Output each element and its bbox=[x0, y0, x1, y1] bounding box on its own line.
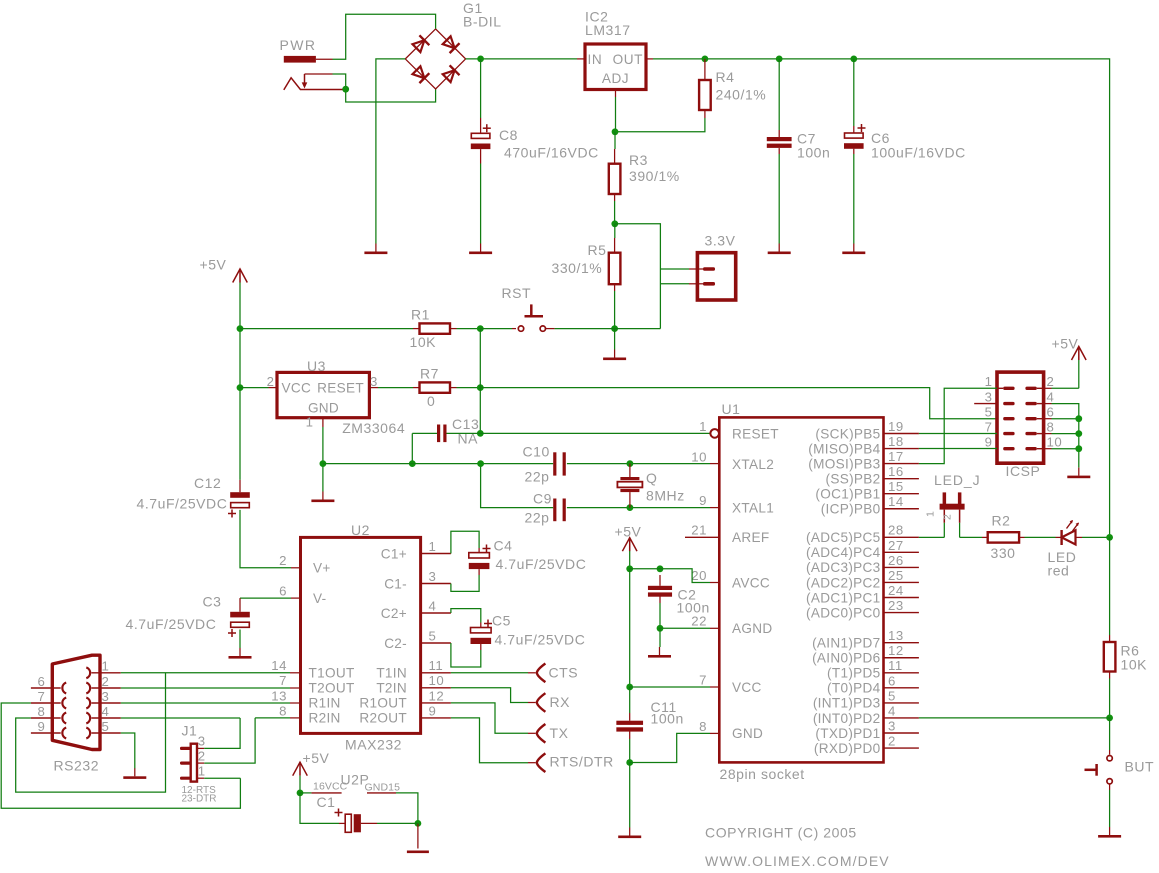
svg-text:(AIN0)PD6: (AIN0)PD6 bbox=[812, 651, 880, 666]
svg-text:23: 23 bbox=[888, 598, 904, 613]
svg-text:18: 18 bbox=[888, 434, 904, 449]
svg-text:23-DTR: 23-DTR bbox=[182, 794, 217, 805]
svg-text:6: 6 bbox=[38, 674, 46, 689]
svg-text:100n: 100n bbox=[797, 145, 830, 161]
svg-text:11: 11 bbox=[429, 658, 444, 673]
svg-text:AVCC: AVCC bbox=[732, 575, 770, 590]
svg-text:8: 8 bbox=[279, 703, 287, 718]
svg-text:NA: NA bbox=[458, 431, 479, 447]
svg-text:7: 7 bbox=[699, 672, 707, 687]
svg-text:(MOSI)PB3: (MOSI)PB3 bbox=[808, 456, 880, 471]
svg-text:240/1%: 240/1% bbox=[716, 87, 767, 103]
svg-text:RTS/DTR: RTS/DTR bbox=[550, 754, 614, 770]
svg-text:(ICP)PB0: (ICP)PB0 bbox=[821, 502, 881, 517]
svg-text:LED_J: LED_J bbox=[934, 472, 981, 488]
svg-text:C2-: C2- bbox=[384, 636, 407, 651]
svg-text:U1: U1 bbox=[722, 401, 741, 417]
svg-text:10: 10 bbox=[691, 449, 707, 464]
svg-text:4.7uF/25VDC: 4.7uF/25VDC bbox=[495, 632, 586, 648]
svg-text:8: 8 bbox=[38, 704, 46, 719]
svg-text:100n: 100n bbox=[677, 600, 710, 616]
svg-text:C5: C5 bbox=[492, 613, 511, 629]
svg-text:R1: R1 bbox=[411, 307, 430, 323]
svg-text:VCC: VCC bbox=[732, 680, 762, 695]
svg-text:C2+: C2+ bbox=[381, 606, 407, 621]
svg-text:WWW.OLIMEX.COM/DEV: WWW.OLIMEX.COM/DEV bbox=[705, 853, 890, 869]
svg-text:PWR: PWR bbox=[280, 37, 317, 53]
svg-text:100uF/16VDC: 100uF/16VDC bbox=[871, 145, 966, 161]
svg-text:8: 8 bbox=[699, 719, 707, 734]
svg-text:+5V: +5V bbox=[200, 257, 227, 273]
svg-text:RS232: RS232 bbox=[54, 758, 100, 774]
svg-text:R7: R7 bbox=[420, 366, 439, 382]
svg-text:XTAL2: XTAL2 bbox=[732, 457, 774, 472]
svg-text:15: 15 bbox=[888, 479, 904, 494]
svg-text:U3: U3 bbox=[307, 358, 326, 374]
svg-text:9: 9 bbox=[985, 435, 993, 450]
svg-text:XTAL1: XTAL1 bbox=[732, 500, 774, 515]
svg-text:10K: 10K bbox=[1121, 657, 1148, 673]
svg-text:10K: 10K bbox=[410, 334, 437, 350]
svg-text:330/1%: 330/1% bbox=[552, 260, 603, 276]
svg-text:R3: R3 bbox=[629, 152, 648, 168]
svg-text:7: 7 bbox=[985, 419, 993, 434]
svg-text:10: 10 bbox=[1047, 435, 1063, 450]
svg-text:3: 3 bbox=[429, 569, 437, 584]
svg-text:6: 6 bbox=[279, 584, 287, 599]
svg-text:(ADC5)PC5: (ADC5)PC5 bbox=[806, 530, 880, 545]
svg-text:10: 10 bbox=[429, 673, 445, 688]
svg-text:5: 5 bbox=[985, 405, 993, 420]
svg-text:(ADC0)PC0: (ADC0)PC0 bbox=[806, 605, 881, 620]
svg-text:C12: C12 bbox=[194, 475, 221, 491]
svg-text:22: 22 bbox=[691, 614, 707, 629]
svg-text:7: 7 bbox=[38, 689, 46, 704]
svg-text:LM317: LM317 bbox=[585, 22, 631, 38]
svg-text:9: 9 bbox=[429, 703, 437, 718]
svg-text:OUT: OUT bbox=[613, 52, 643, 67]
svg-text:1: 1 bbox=[429, 539, 437, 554]
svg-text:C3: C3 bbox=[203, 594, 222, 610]
svg-text:1: 1 bbox=[925, 511, 937, 517]
svg-text:4: 4 bbox=[429, 598, 437, 613]
svg-text:8MHz: 8MHz bbox=[646, 488, 685, 504]
svg-text:330: 330 bbox=[991, 545, 1016, 561]
svg-text:22p: 22p bbox=[525, 469, 550, 485]
svg-text:2: 2 bbox=[198, 749, 206, 764]
svg-text:5: 5 bbox=[429, 628, 437, 643]
svg-text:0: 0 bbox=[427, 393, 435, 409]
svg-text:7: 7 bbox=[279, 673, 287, 688]
svg-text:24: 24 bbox=[888, 583, 904, 598]
svg-text:4.7uF/25VDC: 4.7uF/25VDC bbox=[126, 616, 217, 632]
svg-text:6: 6 bbox=[1047, 405, 1055, 420]
svg-text:(INT0)PD2: (INT0)PD2 bbox=[813, 711, 881, 726]
svg-text:R4: R4 bbox=[716, 69, 735, 85]
svg-text:1: 1 bbox=[102, 659, 110, 674]
svg-text:(T0)PD4: (T0)PD4 bbox=[827, 681, 881, 696]
svg-text:(OC1)PB1: (OC1)PB1 bbox=[815, 487, 880, 502]
svg-text:19: 19 bbox=[888, 419, 904, 434]
svg-text:AGND: AGND bbox=[732, 621, 772, 636]
svg-text:R2: R2 bbox=[992, 513, 1011, 529]
svg-text:11: 11 bbox=[888, 658, 903, 673]
svg-text:C8: C8 bbox=[499, 127, 518, 143]
svg-text:9: 9 bbox=[38, 719, 46, 734]
svg-text:T2IN: T2IN bbox=[376, 681, 407, 696]
svg-text:C1: C1 bbox=[317, 794, 336, 810]
svg-text:14: 14 bbox=[271, 658, 287, 673]
svg-text:4: 4 bbox=[888, 703, 896, 718]
svg-text:(AIN1)PD7: (AIN1)PD7 bbox=[812, 636, 880, 651]
svg-text:(SS)PB2: (SS)PB2 bbox=[826, 471, 881, 486]
svg-text:1: 1 bbox=[699, 419, 707, 434]
svg-text:4.7uF/25VDC: 4.7uF/25VDC bbox=[137, 496, 228, 512]
svg-text:C4: C4 bbox=[494, 538, 513, 554]
svg-text:6: 6 bbox=[888, 673, 896, 688]
svg-text:100n: 100n bbox=[651, 711, 684, 727]
svg-text:20: 20 bbox=[691, 568, 707, 583]
svg-text:470uF/16VDC: 470uF/16VDC bbox=[504, 145, 599, 161]
svg-text:2: 2 bbox=[942, 514, 954, 520]
svg-text:12: 12 bbox=[888, 643, 904, 658]
svg-text:C9: C9 bbox=[533, 491, 552, 507]
svg-text:25: 25 bbox=[888, 568, 904, 583]
svg-text:C1+: C1+ bbox=[381, 546, 407, 561]
svg-text:ICSP: ICSP bbox=[1006, 463, 1041, 479]
svg-text:red: red bbox=[1048, 563, 1070, 579]
svg-text:V-: V- bbox=[313, 591, 326, 606]
svg-text:3: 3 bbox=[888, 718, 896, 733]
svg-text:V+: V+ bbox=[313, 561, 331, 576]
svg-text:(T1)PD5: (T1)PD5 bbox=[827, 666, 880, 681]
svg-text:B-DIL: B-DIL bbox=[463, 14, 502, 30]
svg-text:2: 2 bbox=[267, 374, 275, 389]
svg-text:U2: U2 bbox=[351, 522, 370, 538]
svg-text:T1IN: T1IN bbox=[376, 666, 407, 681]
svg-text:5: 5 bbox=[888, 688, 896, 703]
svg-text:T1OUT: T1OUT bbox=[309, 666, 355, 681]
svg-text:(SCK)PB5: (SCK)PB5 bbox=[815, 426, 880, 441]
svg-text:2: 2 bbox=[1047, 374, 1055, 389]
svg-text:4.7uF/25VDC: 4.7uF/25VDC bbox=[496, 556, 587, 572]
svg-text:9: 9 bbox=[699, 493, 707, 508]
svg-text:(ADC2)PC2: (ADC2)PC2 bbox=[806, 575, 880, 590]
svg-text:3: 3 bbox=[370, 374, 378, 389]
svg-text:Q: Q bbox=[646, 470, 657, 486]
svg-text:28pin socket: 28pin socket bbox=[720, 766, 805, 782]
svg-text:RST: RST bbox=[502, 285, 532, 301]
svg-text:+5V: +5V bbox=[303, 750, 330, 766]
svg-text:5: 5 bbox=[102, 719, 110, 734]
svg-text:RESET: RESET bbox=[732, 426, 779, 441]
svg-text:22p: 22p bbox=[525, 510, 550, 526]
svg-text:3: 3 bbox=[985, 389, 993, 404]
svg-text:14: 14 bbox=[888, 494, 904, 509]
svg-text:16: 16 bbox=[888, 464, 904, 479]
svg-text:3: 3 bbox=[102, 689, 110, 704]
svg-text:ADJ: ADJ bbox=[602, 71, 629, 86]
svg-text:TX: TX bbox=[550, 725, 569, 741]
svg-text:27: 27 bbox=[888, 538, 904, 553]
svg-text:2: 2 bbox=[102, 674, 110, 689]
svg-text:(ADC4)PC4: (ADC4)PC4 bbox=[806, 545, 881, 560]
svg-text:8: 8 bbox=[1047, 419, 1055, 434]
svg-text:26: 26 bbox=[888, 553, 904, 568]
svg-text:390/1%: 390/1% bbox=[629, 168, 680, 184]
svg-text:R1IN: R1IN bbox=[309, 696, 341, 711]
svg-text:13: 13 bbox=[271, 688, 287, 703]
svg-text:R2IN: R2IN bbox=[309, 711, 341, 726]
svg-text:R5: R5 bbox=[588, 242, 607, 258]
svg-text:ZM33064: ZM33064 bbox=[342, 420, 405, 436]
svg-text:C10: C10 bbox=[523, 444, 550, 460]
svg-text:CTS: CTS bbox=[549, 665, 579, 681]
svg-text:16VCC: 16VCC bbox=[313, 781, 348, 793]
svg-text:VCC: VCC bbox=[282, 381, 312, 396]
svg-text:28: 28 bbox=[888, 523, 904, 538]
svg-text:C1-: C1- bbox=[384, 576, 407, 591]
svg-text:13: 13 bbox=[888, 628, 904, 643]
svg-text:(TXD)PD1: (TXD)PD1 bbox=[815, 726, 880, 741]
svg-text:4: 4 bbox=[1047, 389, 1055, 404]
svg-text:1: 1 bbox=[985, 374, 993, 389]
svg-text:1: 1 bbox=[198, 764, 206, 779]
svg-text:GND: GND bbox=[308, 401, 339, 416]
svg-text:+5V: +5V bbox=[1052, 336, 1079, 352]
svg-text:12: 12 bbox=[429, 688, 445, 703]
svg-text:RESET: RESET bbox=[317, 381, 364, 396]
svg-text:GND15: GND15 bbox=[365, 782, 401, 794]
svg-text:2: 2 bbox=[888, 733, 896, 748]
svg-text:(MISO)PB4: (MISO)PB4 bbox=[808, 441, 880, 456]
svg-text:J1: J1 bbox=[182, 723, 198, 739]
svg-text:17: 17 bbox=[888, 449, 904, 464]
svg-text:RX: RX bbox=[550, 694, 571, 710]
svg-text:3.3V: 3.3V bbox=[705, 233, 736, 249]
svg-text:MAX232: MAX232 bbox=[345, 737, 402, 753]
svg-text:R2OUT: R2OUT bbox=[359, 711, 407, 726]
svg-text:IN: IN bbox=[588, 52, 603, 67]
svg-text:2: 2 bbox=[279, 553, 287, 568]
svg-text:+5V: +5V bbox=[615, 524, 642, 540]
svg-text:(ADC1)PC1: (ADC1)PC1 bbox=[806, 590, 880, 605]
svg-text:T2OUT: T2OUT bbox=[309, 681, 355, 696]
svg-text:(ADC3)PC3: (ADC3)PC3 bbox=[806, 560, 880, 575]
svg-text:(RXD)PD0: (RXD)PD0 bbox=[814, 741, 881, 756]
svg-text:4: 4 bbox=[102, 704, 110, 719]
svg-text:3: 3 bbox=[198, 734, 206, 749]
svg-text:21: 21 bbox=[691, 523, 707, 538]
svg-text:BUT: BUT bbox=[1125, 759, 1155, 775]
svg-text:COPYRIGHT (C) 2005: COPYRIGHT (C) 2005 bbox=[705, 825, 857, 841]
svg-text:R1OUT: R1OUT bbox=[359, 696, 407, 711]
svg-text:1: 1 bbox=[306, 415, 314, 430]
svg-text:GND: GND bbox=[732, 726, 763, 741]
svg-text:AREF: AREF bbox=[732, 530, 769, 545]
svg-text:(INT1)PD3: (INT1)PD3 bbox=[813, 696, 881, 711]
